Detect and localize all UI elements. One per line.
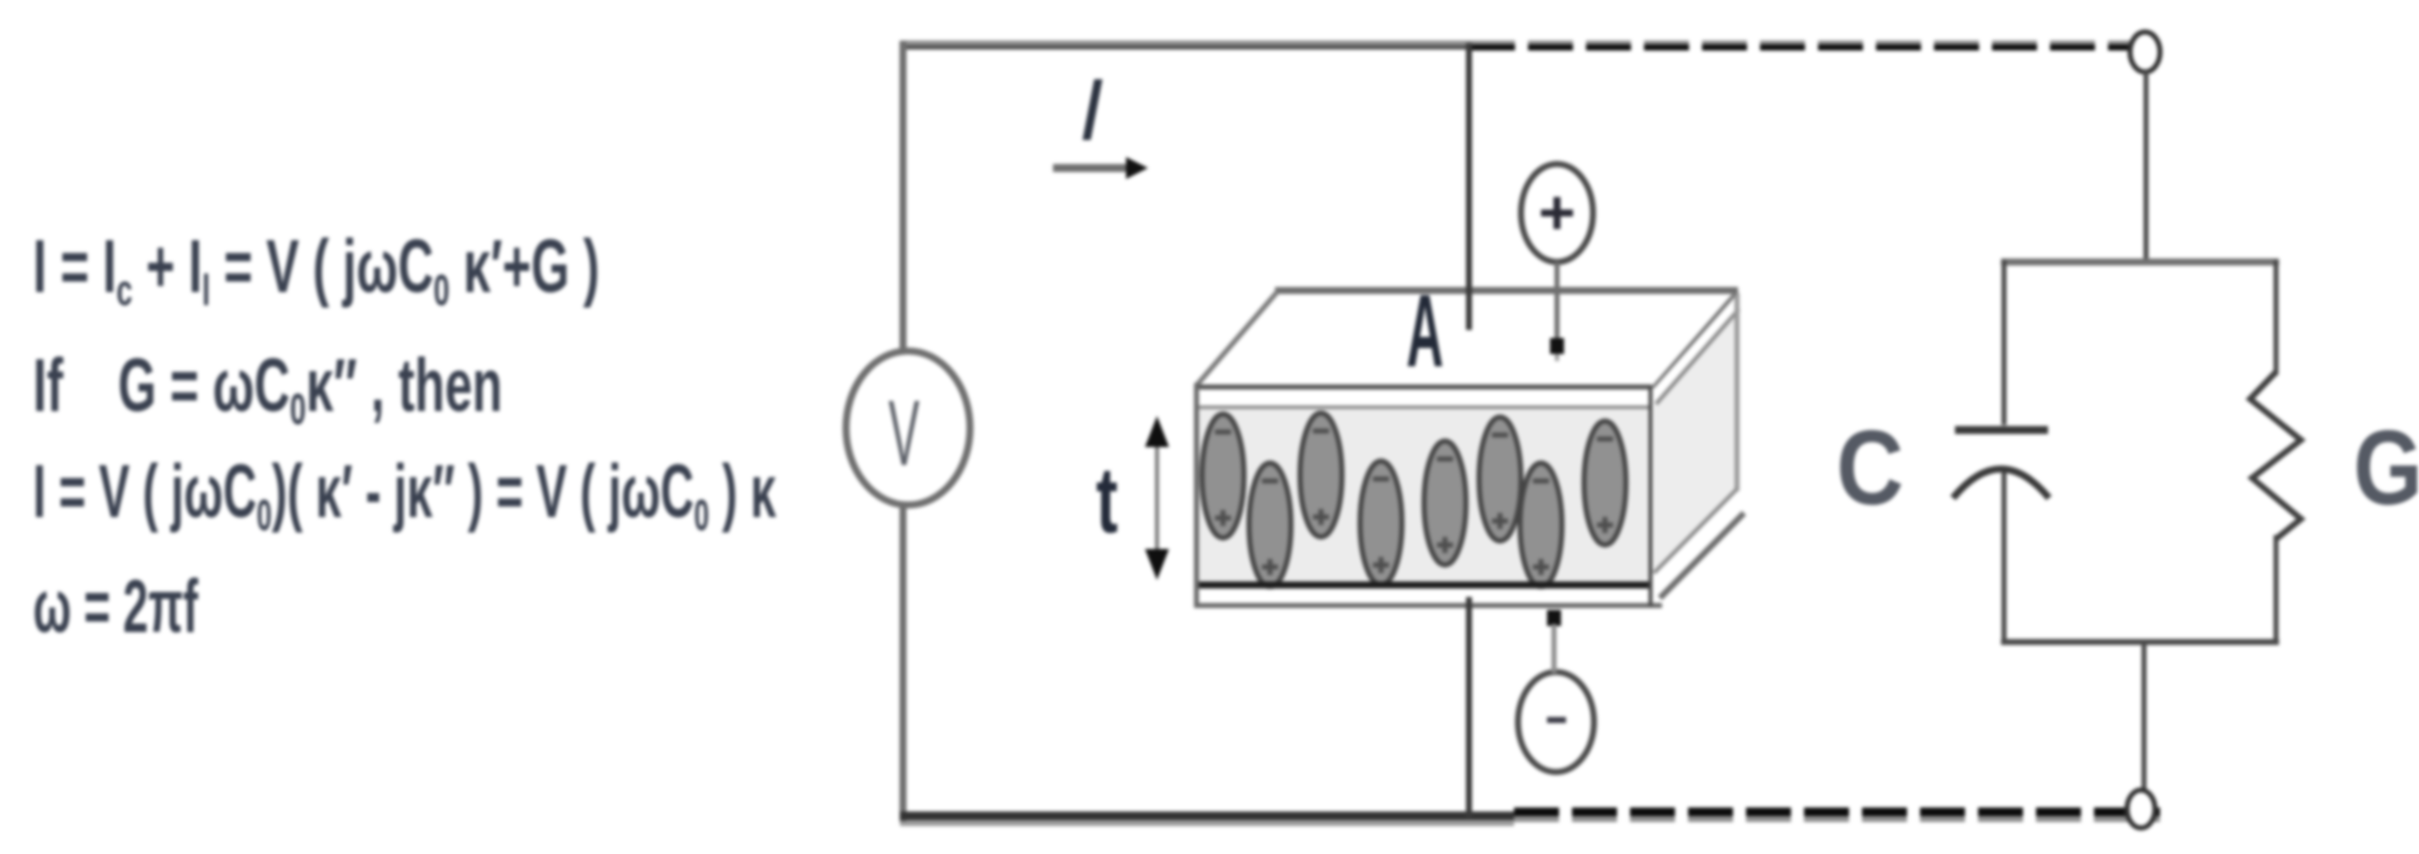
dipole 8 (1584, 421, 1626, 545)
wire: left vertical from top wire to voltage source (900, 41, 907, 352)
wire: left vertical from voltage source to bottom wire (900, 504, 907, 822)
resistor zigzag G (2250, 372, 2301, 539)
svg-text:I = Ic + Il = V ( jωC0 κ′+G ): I = Ic + Il = V ( jωC0 κ′+G ) (33, 226, 599, 315)
voltage source V (846, 351, 970, 505)
svg-text:t: t (1096, 449, 1118, 553)
equation line 3: I = V ( jwC0 )( k' - jk'' ) = V ( jwC0 ) k (33, 451, 776, 540)
capacitor 3D box: top electrode plate front band (1196, 386, 1652, 408)
svg-text:I = V ( jωC0)( κ′ - jκ″ ) = V: I = V ( jωC0)( κ′ - jκ″ ) = V ( jωC0 ) κ (33, 451, 776, 540)
capacitor C plates (1953, 430, 2049, 498)
wire: bottom solid from source to dash start (two-tone) (900, 816, 1514, 824)
plus terminal (1521, 164, 1593, 262)
minus terminal (1518, 672, 1594, 772)
dielectric front face (1196, 409, 1652, 583)
network rectangle bottom edge (2001, 639, 2279, 645)
wire: bottom plate to minus terminal (1547, 610, 1561, 673)
wire: top terminal to network (2144, 71, 2149, 264)
capacitor 3D box: top face (1196, 291, 1738, 387)
equation line 2: If G = wC0 k'', then (33, 345, 502, 434)
dipole 2 (1249, 463, 1291, 587)
current arrow under I (1053, 157, 1148, 179)
capacitor 3D box: right side face (1652, 291, 1744, 598)
capacitor C branch leads (2002, 260, 2007, 644)
capacitor 3D box: bottom electrode plate front band (1196, 589, 1662, 606)
dipole 3 (1300, 413, 1342, 537)
svg-text:V: V (888, 380, 919, 485)
dipole 4 (1360, 461, 1402, 585)
capacitor 3D box: left edge (1194, 383, 1199, 608)
wire: network bottom to bottom terminal (2142, 640, 2147, 792)
svg-text:G: G (2353, 408, 2419, 527)
dipole 5 (1424, 441, 1466, 565)
wire: bottom dashed line to terminal (1514, 812, 2160, 820)
svg-text:A: A (1406, 274, 1443, 389)
wire: top horizontal from source to node (two-tone) (900, 43, 1472, 48)
svg-text:C: C (1836, 410, 1903, 528)
equation line 1: I = Ic + Il = V ( jwC0 k'+G ) (33, 226, 599, 315)
dipole 7 (1520, 463, 1562, 587)
equation line 4: w = 2pf (33, 565, 198, 648)
terminal node top right (2130, 32, 2160, 72)
wire: top dashed line to terminal (1470, 43, 2133, 48)
dielectric bottom dark edge (1196, 582, 1652, 589)
wire: plus terminal arrow to top plate (1550, 262, 1564, 361)
thickness double arrow (1145, 416, 1169, 580)
network rectangle top edge (2001, 259, 2279, 266)
svg-text:I: I (1079, 60, 1103, 159)
capacitor 3D box: front right edge (1649, 386, 1653, 606)
conductance G branch leads (2274, 260, 2279, 644)
svg-text:If G = ωC0κ″ , then: If G = ωC0κ″ , then (33, 345, 502, 434)
dipole 6 (1479, 417, 1521, 541)
wire: vertical into top plate (1466, 43, 1472, 330)
terminal node bottom right (2127, 790, 2155, 828)
wire: vertical from capacitor bottom plate to bottom wire (1466, 597, 1472, 818)
dipole 1 (1202, 414, 1244, 538)
svg-text:ω = 2πf: ω = 2πf (33, 565, 198, 648)
